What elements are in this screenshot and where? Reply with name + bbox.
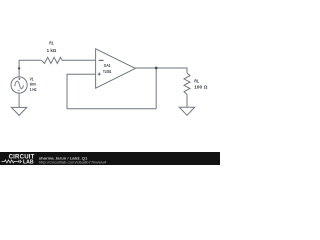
svg-text:100 Ω: 100 Ω <box>194 85 208 90</box>
wire R1 to op-amp inverting input <box>62 59 95 61</box>
svg-text:V1: V1 <box>30 76 34 81</box>
wire feedback bottom run <box>67 108 156 110</box>
CircuitLab logo resistor zigzag <box>2 160 17 163</box>
op-amp non-inverting input marker <box>98 73 101 76</box>
svg-text:http://circuitlab.com/c6adb77k: http://circuitlab.com/c6adb77kwwu4 <box>39 161 107 165</box>
svg-text:TL081: TL081 <box>103 69 112 74</box>
wire feedback from output junction down <box>155 68 157 109</box>
op-amp inverting input marker <box>99 59 104 61</box>
watermark bar <box>0 152 220 165</box>
svg-text:OA1: OA1 <box>104 63 111 68</box>
V1 sine waveform <box>15 81 24 89</box>
op-amp U1 triangle <box>96 49 136 88</box>
svg-text:RL: RL <box>194 78 199 83</box>
node junction dot at output feedback tap <box>155 67 158 70</box>
ground under RL <box>179 107 194 115</box>
svg-text:1 kΩ: 1 kΩ <box>47 48 57 53</box>
wire V1 top to R1 <box>19 60 41 77</box>
svg-text:R1: R1 <box>49 40 54 45</box>
V1 polarity plus <box>18 78 21 91</box>
wire feedback left riser to non-inverting input <box>67 74 96 108</box>
voltage source V1 circle <box>11 77 27 93</box>
terminal dot on V1 top wire <box>18 67 20 69</box>
wire V1 bottom to ground <box>18 93 20 107</box>
svg-text:sine: sine <box>30 82 37 87</box>
svg-text:LAB: LAB <box>23 160 34 165</box>
ground under V1 <box>11 107 26 115</box>
resistor RL <box>184 73 190 95</box>
wire RL to ground <box>186 95 188 108</box>
svg-text:1 Hz: 1 Hz <box>30 87 38 92</box>
resistor R1 <box>41 57 62 63</box>
CircuitLab logo capacitor <box>17 160 22 163</box>
wire op-amp output to RL <box>135 68 187 73</box>
